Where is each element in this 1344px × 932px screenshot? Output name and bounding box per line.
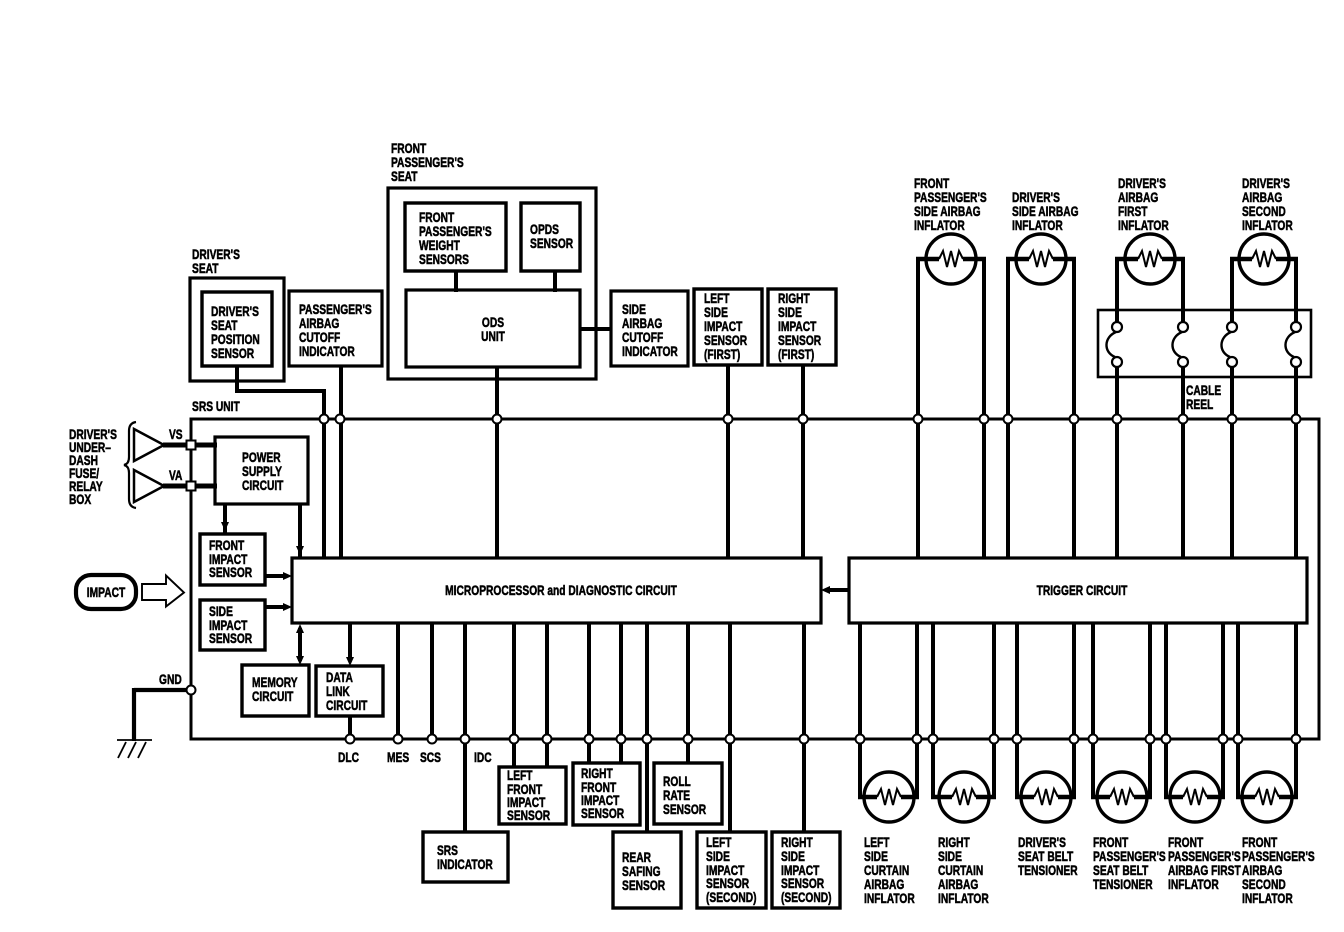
wire trigger circuit to front passenger's airbag second inflator left bbox=[1236, 623, 1240, 797]
ground symbol bbox=[117, 739, 152, 741]
wire microprocessor to MES bbox=[396, 623, 400, 739]
svg-text:TRIGGER CIRCUIT: TRIGGER CIRCUIT bbox=[1037, 582, 1128, 598]
wire side impact sensor to microprocessor bbox=[265, 605, 286, 609]
svg-text:INFLATOR: INFLATOR bbox=[1168, 876, 1219, 892]
svg-text:INFLATOR: INFLATOR bbox=[1242, 217, 1293, 233]
svg-text:SENSOR: SENSOR bbox=[581, 805, 624, 821]
svg-text:INFLATOR: INFLATOR bbox=[1242, 890, 1293, 906]
wire power supply to front impact sensor bbox=[223, 503, 227, 534]
svg-text:DLC: DLC bbox=[338, 749, 359, 765]
wire trigger circuit to front passenger's seat belt tensioner right bbox=[1148, 623, 1152, 797]
svg-text:TENSIONER: TENSIONER bbox=[1018, 862, 1078, 878]
junction top bus x=1232 bbox=[1228, 415, 1237, 424]
wire driver's airbag first inflator left to trigger circuit bbox=[1115, 259, 1119, 322]
svg-text:VA: VA bbox=[169, 467, 182, 483]
junction bottom bus x=1150 bbox=[1146, 735, 1155, 744]
roll rate sensor bbox=[654, 763, 722, 824]
junction bottom bus x=1074 bbox=[1070, 735, 1079, 744]
svg-text:INFLATOR: INFLATOR bbox=[1012, 217, 1063, 233]
junction bottom bus x=917 bbox=[913, 735, 922, 744]
wire front passenger's side airbag inflator left to trigger circuit bbox=[916, 259, 920, 558]
junction top bus x=1008 bbox=[1004, 415, 1013, 424]
junction bottom bus x=547 bbox=[543, 735, 552, 744]
wire VA to power supply circuit bbox=[163, 484, 217, 489]
wire driver's airbag second inflator left to trigger circuit bbox=[1230, 259, 1234, 322]
wire driver's airbag second inflator right to trigger circuit bbox=[1294, 259, 1298, 322]
svg-text:INDICATOR: INDICATOR bbox=[299, 343, 355, 359]
junction top bus x=1117 bbox=[1113, 415, 1122, 424]
trigger circuit bbox=[849, 558, 1307, 623]
junction bottom bus x=465 bbox=[461, 735, 470, 744]
junction bottom bus x=994 bbox=[990, 735, 999, 744]
cable reel box bbox=[1098, 310, 1311, 377]
wire microprocessor to left side impact sensor (second) bbox=[728, 623, 732, 832]
wire microprocessor to memory circuit bbox=[298, 628, 302, 661]
junction bottom bus x=350 bbox=[346, 735, 355, 744]
wire left side impact sensor (first) to microprocessor bbox=[726, 365, 730, 558]
right front impact sensor bbox=[573, 763, 640, 825]
svg-text:SCS: SCS bbox=[420, 749, 441, 765]
inflator squib driver's airbag second inflator bbox=[1239, 234, 1289, 284]
svg-text:MES: MES bbox=[387, 749, 409, 765]
SRS unit box bbox=[191, 419, 1319, 739]
junction bottom bus x=933 bbox=[929, 735, 938, 744]
inflator squib right side curtain airbag inflator bbox=[939, 772, 989, 822]
wire trigger circuit to microprocessor bbox=[827, 588, 849, 592]
cable reel contact 3 bbox=[1227, 322, 1237, 332]
svg-text:INFLATOR: INFLATOR bbox=[864, 890, 915, 906]
svg-text:IDC: IDC bbox=[474, 749, 492, 765]
inflator squib driver's seat belt tensioner bbox=[1021, 772, 1071, 822]
junction top bus x=918 bbox=[914, 415, 923, 424]
junction top bus x=984 bbox=[980, 415, 989, 424]
svg-text:SENSOR: SENSOR bbox=[622, 877, 665, 893]
wire trigger circuit to front passenger's airbag second inflator right bbox=[1294, 623, 1298, 797]
wire trigger circuit to left side curtain airbag inflator right bbox=[915, 623, 919, 797]
wire trigger circuit to driver's seat belt tensioner left bbox=[1015, 623, 1019, 797]
wire data link circuit to DLC bbox=[348, 716, 352, 739]
wire front passenger's side airbag inflator right to trigger circuit bbox=[982, 259, 986, 558]
wire trigger circuit to front passenger's seat belt tensioner left bbox=[1091, 623, 1095, 797]
junction bottom bus x=1238 bbox=[1234, 735, 1243, 744]
inflator squib left side curtain airbag inflator bbox=[864, 772, 914, 822]
right side impact sensor (second) bbox=[772, 832, 840, 908]
junction left edge y=445 bbox=[187, 441, 196, 450]
wire ODS unit to side airbag cutoff indicator bbox=[580, 327, 611, 331]
svg-text:TENSIONER: TENSIONER bbox=[1093, 876, 1153, 892]
wire trigger circuit to right side curtain airbag inflator left bbox=[931, 623, 935, 797]
junction bottom bus x=589 bbox=[585, 735, 594, 744]
junction bottom bus x=1166 bbox=[1162, 735, 1171, 744]
right side impact sensor (first) bbox=[768, 289, 836, 365]
junction bottom bus x=688 bbox=[684, 735, 693, 744]
svg-text:SENSOR: SENSOR bbox=[507, 807, 550, 823]
wire driver's side airbag inflator left to trigger circuit bbox=[1006, 259, 1010, 558]
svg-text:UNIT: UNIT bbox=[481, 328, 505, 344]
front passenger's weight sensors bbox=[405, 203, 506, 271]
impact label bbox=[76, 575, 136, 609]
inflator squib front passenger's side airbag inflator bbox=[926, 234, 976, 284]
junction bottom bus x=1093 bbox=[1089, 735, 1098, 744]
power supply circuit bbox=[215, 437, 308, 504]
inflator squib driver's airbag first inflator bbox=[1125, 234, 1175, 284]
junction bottom bus x=621 bbox=[617, 735, 626, 744]
junction top bus x=728 bbox=[724, 415, 733, 424]
junction bottom bus x=804 bbox=[800, 735, 809, 744]
cable reel contact 2 bbox=[1178, 322, 1188, 332]
SRS indicator bbox=[423, 832, 508, 882]
junction bottom bus x=432 bbox=[428, 735, 437, 744]
svg-text:IMPACT: IMPACT bbox=[87, 584, 126, 600]
junction bottom bus x=398 bbox=[394, 735, 403, 744]
wire GND bbox=[134, 688, 193, 692]
svg-text:SRS UNIT: SRS UNIT bbox=[192, 398, 240, 414]
wire microprocessor to right side impact sensor (second) bbox=[802, 623, 806, 832]
svg-text:INDICATOR: INDICATOR bbox=[622, 343, 678, 359]
wire microprocessor to roll rate sensor bbox=[686, 623, 690, 763]
svg-text:INFLATOR: INFLATOR bbox=[914, 217, 965, 233]
junction bottom bus x=1017 bbox=[1013, 735, 1022, 744]
svg-text:SEAT: SEAT bbox=[391, 168, 418, 184]
junction bottom bus x=1223 bbox=[1219, 735, 1228, 744]
svg-text:SENSOR: SENSOR bbox=[211, 345, 254, 361]
wire microprocessor to right front impact sensor b bbox=[619, 623, 623, 763]
front passenger's seat outer box bbox=[388, 188, 596, 379]
side airbag cutoff indicator bbox=[611, 291, 688, 366]
passenger's airbag cutoff indicator bbox=[289, 291, 382, 366]
wire trigger circuit to right side curtain airbag inflator right bbox=[992, 623, 996, 797]
wire microprocessor to rear safing sensor bbox=[645, 623, 649, 832]
svg-text:GND: GND bbox=[159, 671, 182, 687]
wire power supply to microprocessor bbox=[298, 503, 302, 558]
svg-text:CIRCUIT: CIRCUIT bbox=[242, 477, 284, 493]
wire VS to power supply circuit bbox=[163, 443, 217, 448]
svg-text:MICROPROCESSOR and DIAGNOSTIC: MICROPROCESSOR and DIAGNOSTIC CIRCUIT bbox=[445, 582, 677, 598]
cable reel contact 4 bbox=[1291, 322, 1301, 332]
side impact sensor bbox=[200, 600, 265, 650]
wire trigger circuit to left side curtain airbag inflator left bbox=[858, 623, 862, 797]
inflator squib driver's side airbag inflator bbox=[1016, 234, 1066, 284]
wire front impact sensor to microprocessor bbox=[265, 574, 286, 578]
wire driver's side airbag inflator right to trigger circuit bbox=[1072, 259, 1076, 558]
left side impact sensor (second) bbox=[697, 832, 766, 908]
driver's seat outer box bbox=[190, 278, 284, 381]
svg-text:(SECOND): (SECOND) bbox=[706, 889, 757, 905]
svg-text:(FIRST): (FIRST) bbox=[704, 346, 740, 362]
wire driver's airbag first inflator right to trigger circuit bbox=[1181, 259, 1185, 322]
junction top bus x=1074 bbox=[1070, 415, 1079, 424]
wire microprocessor to right front impact sensor a bbox=[587, 623, 591, 763]
junction left edge y=486 bbox=[187, 482, 196, 491]
junction top bus x=1296 bbox=[1292, 415, 1301, 424]
junction left edge y=690 bbox=[187, 686, 196, 695]
wire microprocessor to SRS indicator bbox=[463, 623, 467, 832]
impact arrow bbox=[142, 576, 184, 607]
wire trigger circuit to front passenger's airbag first inflator left bbox=[1164, 623, 1168, 797]
svg-text:SENSOR: SENSOR bbox=[530, 235, 573, 251]
OPDS sensor bbox=[521, 203, 580, 271]
svg-text:(FIRST): (FIRST) bbox=[778, 346, 814, 362]
svg-text:SEAT: SEAT bbox=[192, 260, 219, 276]
svg-text:INFLATOR: INFLATOR bbox=[1118, 217, 1169, 233]
driver's seat position sensor bbox=[202, 292, 272, 366]
cable reel contact 1 bbox=[1112, 322, 1122, 332]
svg-text:(SECOND): (SECOND) bbox=[781, 889, 832, 905]
rear safing sensor bbox=[613, 832, 681, 908]
svg-text:SENSOR: SENSOR bbox=[663, 801, 706, 817]
wire ODS unit to microprocessor bbox=[495, 367, 499, 558]
terminal VS bbox=[134, 429, 164, 461]
svg-text:INFLATOR: INFLATOR bbox=[938, 890, 989, 906]
inflator squib front passenger's airbag second inflator bbox=[1242, 772, 1292, 822]
junction top bus x=340 bbox=[336, 415, 345, 424]
wire OPDS sensor to ODS unit bbox=[553, 271, 557, 292]
svg-text:SENSOR: SENSOR bbox=[209, 564, 252, 580]
inflator squib front passenger's seat belt tensioner bbox=[1097, 772, 1147, 822]
brace fuse/relay box bbox=[124, 422, 136, 508]
junction top bus x=803 bbox=[799, 415, 808, 424]
junction top bus x=324 bbox=[320, 415, 329, 424]
junction top bus x=497 bbox=[493, 415, 502, 424]
wire right side impact sensor (first) to microprocessor bbox=[801, 365, 805, 558]
left front impact sensor bbox=[499, 767, 566, 824]
junction bottom bus x=860 bbox=[856, 735, 865, 744]
terminal VA bbox=[134, 470, 164, 502]
svg-text:CIRCUIT: CIRCUIT bbox=[252, 688, 294, 704]
wire trigger circuit to front passenger's airbag first inflator right bbox=[1221, 623, 1225, 797]
junction bottom bus x=647 bbox=[643, 735, 652, 744]
wire microprocessor to left front impact sensor a bbox=[512, 623, 516, 767]
svg-text:SENSORS: SENSORS bbox=[419, 251, 469, 267]
microprocessor and diagnostic circuit bbox=[292, 558, 821, 623]
wire weight sensors to ODS unit bbox=[454, 271, 458, 292]
svg-text:CIRCUIT: CIRCUIT bbox=[326, 697, 368, 713]
ODS unit bbox=[406, 290, 580, 367]
svg-text:BOX: BOX bbox=[69, 491, 92, 507]
svg-text:SENSOR: SENSOR bbox=[209, 630, 252, 646]
wire microprocessor to data link circuit bbox=[348, 623, 352, 660]
wire trigger circuit to driver's seat belt tensioner right bbox=[1072, 623, 1076, 797]
wire seat position sensor to SRS unit bbox=[237, 366, 324, 558]
svg-text:REEL: REEL bbox=[1186, 396, 1214, 412]
junction top bus x=1183 bbox=[1179, 415, 1188, 424]
junction bottom bus x=730 bbox=[726, 735, 735, 744]
junction bottom bus x=1296 bbox=[1292, 735, 1301, 744]
memory circuit bbox=[242, 665, 309, 716]
inflator squib front passenger's airbag first inflator bbox=[1170, 772, 1220, 822]
wire passenger's airbag cutoff indicator to microprocessor bbox=[339, 366, 343, 558]
svg-text:VS: VS bbox=[169, 426, 183, 442]
front impact sensor bbox=[200, 534, 265, 585]
wire microprocessor to left front impact sensor b bbox=[545, 623, 549, 767]
svg-text:INDICATOR: INDICATOR bbox=[437, 856, 493, 872]
data link circuit bbox=[316, 666, 383, 716]
left side impact sensor (first) bbox=[694, 289, 762, 365]
junction bottom bus x=514 bbox=[510, 735, 519, 744]
wire microprocessor to SCS bbox=[430, 623, 434, 739]
